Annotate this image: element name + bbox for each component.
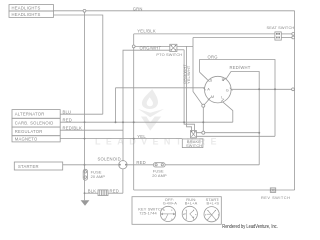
svg-text:B+L+S: B+L+S bbox=[207, 200, 220, 205]
wire MAGNETO YEL bbox=[60, 138, 182, 140]
svg-text:PTO SWITCH: PTO SWITCH bbox=[156, 52, 182, 57]
wire starter to solenoid bbox=[63, 164, 119, 166]
svg-text:YEL/WHT: YEL/WHT bbox=[186, 65, 191, 84]
fuse F2 bbox=[153, 163, 165, 167]
svg-text:725-1744: 725-1744 bbox=[139, 211, 157, 216]
wire BLU bbox=[60, 113, 103, 115]
wire brake line right bbox=[196, 132, 259, 134]
svg-text:B+L+A: B+L+A bbox=[185, 200, 198, 205]
watermark logo flame bbox=[138, 89, 164, 131]
node junction circle top bbox=[83, 9, 86, 12]
ground bbox=[81, 200, 90, 206]
svg-text:Rendered by LeadVenture, Inc.: Rendered by LeadVenture, Inc. bbox=[222, 224, 277, 230]
alternator box bbox=[12, 110, 60, 119]
wire lower branch to PTO bbox=[134, 49, 170, 51]
headlight box 1 bbox=[9, 5, 54, 11]
svg-text:YEL: YEL bbox=[137, 134, 146, 139]
wire hatch to solenoid drop bbox=[108, 192, 123, 194]
rev switch connector bbox=[270, 188, 275, 193]
connector hatch bbox=[98, 190, 108, 196]
wire ORG bbox=[200, 60, 275, 137]
wire seat T up bbox=[192, 38, 194, 47]
svg-text:YEL/BLK: YEL/BLK bbox=[137, 29, 156, 34]
junction ground bus / YEL wire bbox=[84, 138, 86, 140]
svg-text:HEADLIGHTS: HEADLIGHTS bbox=[12, 12, 41, 17]
wire YEL/BLK vertical chain bbox=[133, 34, 135, 190]
wire solenoid bottom bbox=[122, 169, 124, 193]
brake switch box bbox=[191, 131, 197, 138]
node circle ORG/WHT tap bbox=[132, 45, 135, 48]
junction starter wire / ground bus bbox=[84, 164, 86, 166]
svg-text:BLU: BLU bbox=[63, 109, 72, 114]
svg-text:STARTER: STARTER bbox=[18, 164, 39, 169]
junction ORG vertical / G wire bbox=[274, 88, 276, 90]
wire RED/WHT bbox=[226, 72, 259, 165]
wire M diagonal bbox=[204, 98, 210, 104]
wire bottom rev line bbox=[134, 189, 295, 191]
junction RED/WHT vertical / brake wire bbox=[258, 132, 260, 134]
wire RED bus bbox=[60, 121, 233, 123]
svg-text:REV SWITCH: REV SWITCH bbox=[261, 195, 290, 200]
wire PTO right top bbox=[177, 45, 193, 47]
terminal ticks bbox=[203, 78, 232, 102]
starter box bbox=[14, 162, 62, 170]
wire A line bbox=[116, 87, 205, 89]
junction ORG/WHT vertical / RED wire bbox=[183, 121, 185, 123]
svg-text:ORG: ORG bbox=[208, 55, 218, 60]
svg-text:RED: RED bbox=[136, 160, 146, 165]
svg-text:S: S bbox=[210, 78, 213, 83]
wire BLK line bbox=[85, 192, 99, 194]
wire fuse2 to RED/WHT vert bbox=[165, 164, 259, 166]
junction YEL/BLK vertical / RED wire bbox=[133, 121, 135, 123]
svg-text:CARB. SOLENOID: CARB. SOLENOID bbox=[15, 121, 54, 126]
junction solenoid feed / RED wire bbox=[122, 121, 124, 123]
wire ground bus vertical bbox=[84, 12, 86, 200]
node M connector circle 2 bbox=[202, 131, 205, 134]
wire S diagonal bbox=[200, 72, 207, 79]
junction M drop / RED wire bbox=[202, 121, 204, 123]
svg-text:RED/BLK: RED/BLK bbox=[63, 126, 82, 131]
wire V3 YEL/WHT down to M bbox=[193, 46, 202, 104]
svg-text:SOLENOID: SOLENOID bbox=[98, 156, 121, 161]
right bus wire bbox=[294, 11, 296, 190]
svg-text:HEADLIGHTS: HEADLIGHTS bbox=[12, 6, 41, 11]
junction YEL/BLK vertical / YEL wire bbox=[133, 138, 135, 140]
svg-text:MAGNETO: MAGNETO bbox=[15, 137, 38, 142]
PTO switch bbox=[170, 44, 177, 51]
junction BLK wire / ground bus bbox=[84, 192, 86, 194]
svg-text:RED: RED bbox=[63, 117, 73, 122]
svg-text:20 AMP: 20 AMP bbox=[91, 174, 106, 179]
wire G line bbox=[231, 88, 292, 90]
svg-text:A: A bbox=[207, 86, 210, 91]
wire RED/BLK bbox=[60, 129, 123, 131]
svg-text:G+M+A: G+M+A bbox=[163, 200, 177, 205]
wire M vertical bbox=[202, 107, 204, 131]
solenoid K1 bbox=[119, 161, 127, 169]
wire headlight2 to x103 bbox=[54, 15, 103, 114]
fuse F1 bbox=[83, 169, 87, 180]
wire seat line2 bbox=[193, 37, 275, 39]
wire V1 ORG/WHT down bbox=[184, 50, 194, 131]
svg-text:RED/WHT: RED/WHT bbox=[230, 65, 251, 70]
node M connector circle bbox=[202, 104, 205, 107]
regulator box bbox=[12, 127, 60, 136]
node seat circle 1 bbox=[292, 33, 295, 36]
seat switch connector bbox=[275, 32, 281, 40]
wire circle to PTO top bbox=[135, 45, 170, 47]
headlight box 2 bbox=[9, 11, 54, 17]
svg-text:ALTERNATOR: ALTERNATOR bbox=[15, 112, 45, 117]
wire seat line1 bbox=[134, 33, 275, 35]
svg-text:REGULATOR: REGULATOR bbox=[15, 129, 43, 134]
svg-text:M: M bbox=[211, 94, 214, 99]
junction RED/WHT vertical / G wire bbox=[258, 88, 260, 90]
svg-text:SEAT SWITCH: SEAT SWITCH bbox=[267, 25, 295, 30]
wire brake bottom right to ORG vert bbox=[196, 135, 275, 137]
wire branch left to x123 bbox=[123, 50, 134, 161]
carb solenoid box bbox=[12, 118, 60, 127]
wire A vertical bbox=[115, 88, 117, 122]
junction ground bus / RED wire bbox=[84, 121, 86, 123]
wire L diagonal bbox=[223, 102, 233, 122]
key switch U1 bbox=[205, 76, 232, 103]
svg-text:SWITCH: SWITCH bbox=[186, 143, 202, 148]
key position box bbox=[132, 197, 221, 225]
node seat circle 2 bbox=[292, 36, 295, 39]
wire GRN headlight1 to right bus bbox=[54, 10, 295, 12]
wire PTO right bottom bbox=[177, 49, 184, 51]
wire seat right stubs bbox=[281, 33, 292, 35]
svg-text:B: B bbox=[222, 77, 225, 82]
node G open circle bbox=[292, 88, 295, 91]
wire solenoid right RED to fuse2 bbox=[127, 164, 153, 166]
wire V2 down bbox=[187, 46, 192, 130]
brake switch label box bbox=[182, 139, 203, 148]
junction A wire drop / RED wire bbox=[115, 121, 117, 123]
magneto box bbox=[12, 136, 60, 142]
svg-text:G: G bbox=[226, 87, 229, 92]
svg-text:20 AMP: 20 AMP bbox=[152, 173, 167, 178]
